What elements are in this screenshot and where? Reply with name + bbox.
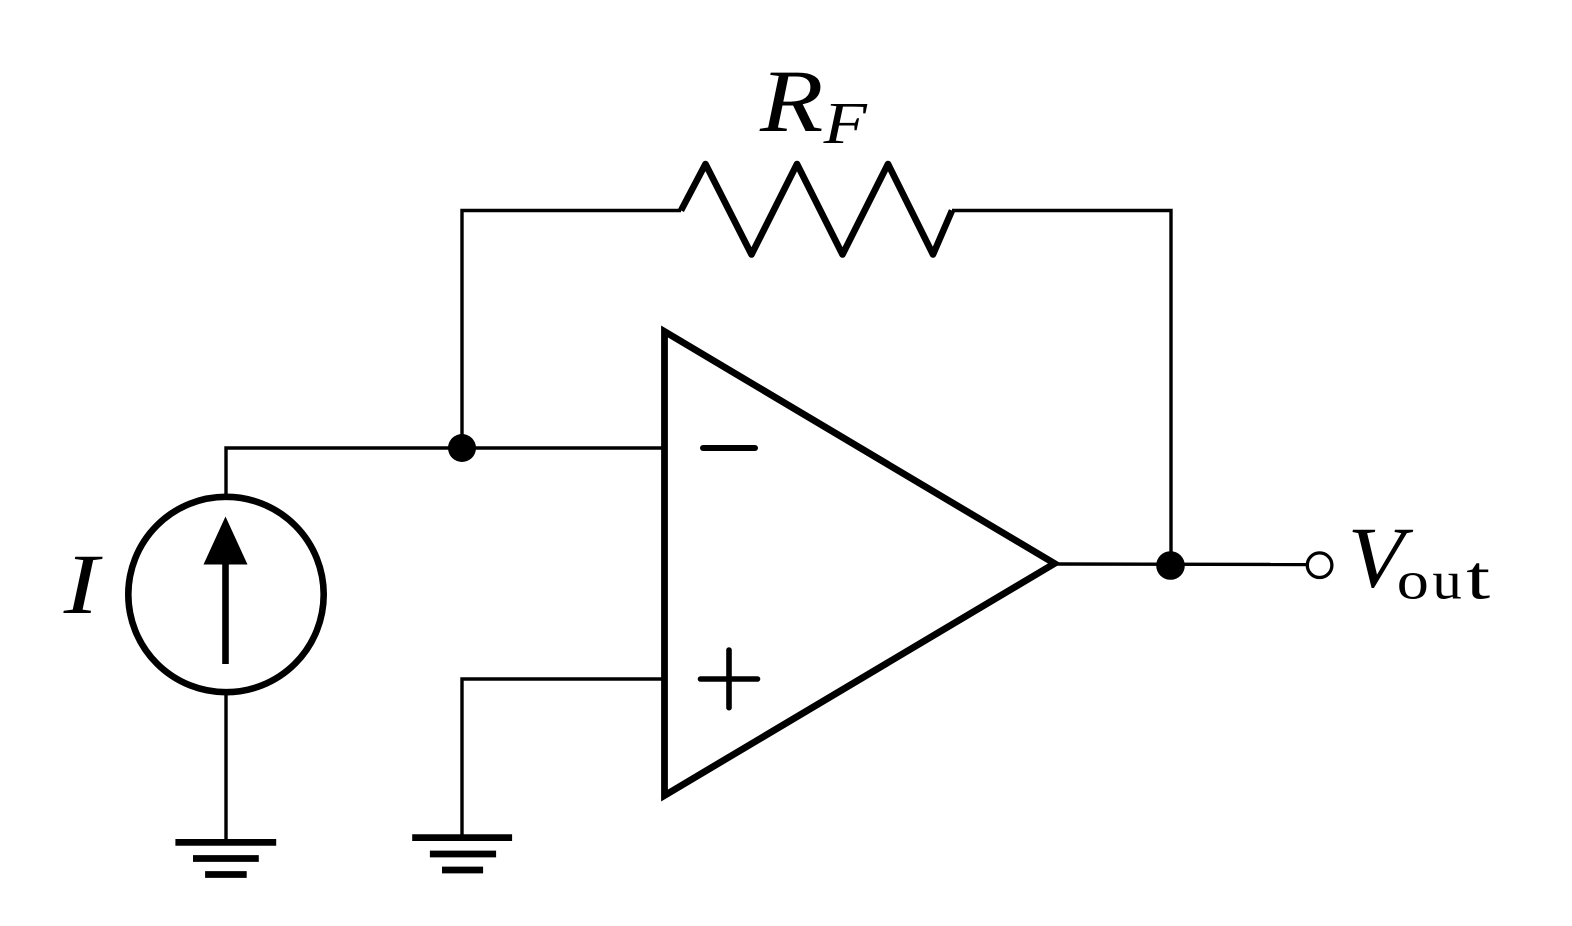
op-amp minus symbol xyxy=(703,445,755,451)
wire current source to ground xyxy=(224,692,227,840)
wire feedback left (node up and across to resistor) xyxy=(462,211,681,449)
current source I xyxy=(128,497,323,692)
node input junction xyxy=(448,434,476,462)
svg-text:F: F xyxy=(822,90,867,156)
svg-text:R: R xyxy=(759,53,824,151)
svg-text:o: o xyxy=(1397,550,1429,610)
wire feedback right (resistor to output node) xyxy=(952,211,1171,566)
op-amp U1 xyxy=(665,332,1055,796)
svg-text:u: u xyxy=(1432,550,1461,610)
ground GND1 xyxy=(175,839,276,846)
ground GND2 xyxy=(412,834,512,841)
resistor RF xyxy=(681,164,952,255)
svg-text:I: I xyxy=(63,537,103,632)
op-amp plus symbol xyxy=(701,676,758,682)
node output junction xyxy=(1156,551,1185,580)
terminal Vout open circle xyxy=(1307,553,1332,578)
wire output (op-amp apex to terminal) xyxy=(1056,562,1307,566)
svg-text:t: t xyxy=(1466,542,1491,612)
wire non-inverting input (op-amp plus input to ground) xyxy=(462,679,665,836)
wire inverting input (current source top to op-amp minus input) xyxy=(226,448,665,496)
